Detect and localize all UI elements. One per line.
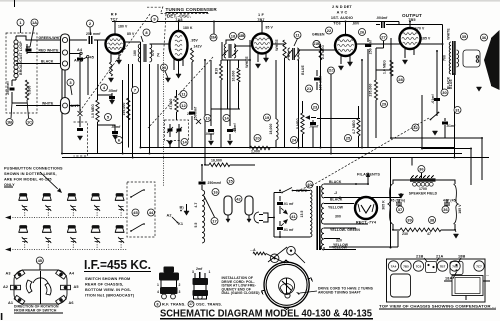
- svg-text:.60V: .60V: [352, 22, 360, 26]
- drum tabs: [283, 260, 289, 263]
- svg-text:1,000: 1,000: [251, 150, 260, 154]
- svg-text:TOP VIEW OF CHASSIS SHOWING CO: TOP VIEW OF CHASSIS SHOWING COMPENSATOR …: [379, 305, 496, 309]
- ground: [402, 60, 407, 64]
- antenna trim capacitor: [26, 44, 28, 54]
- dial drum: [264, 262, 309, 307]
- part ref 18B: [238, 33, 245, 40]
- wire: vertical x443 right: [442, 25, 444, 96]
- svg-text:BLACK: BLACK: [330, 198, 343, 202]
- svg-text:40: 40: [307, 182, 312, 187]
- svg-text:BLACK: BLACK: [329, 180, 342, 184]
- OSC transformer part drawing: [192, 267, 211, 299]
- part ref 2: [87, 20, 94, 27]
- part ref 16: [212, 189, 219, 196]
- page edge mark top-left: [14, 0, 16, 7]
- svg-text:DIAL (GANG CLOSED): DIAL (GANG CLOSED): [222, 291, 260, 295]
- chassis big part: [391, 274, 411, 297]
- wire: vertical x331: [330, 74, 332, 154]
- svg-text:6,800: 6,800: [28, 86, 32, 95]
- svg-text:21A: 21A: [436, 255, 444, 259]
- pushbutton switch: [42, 196, 51, 201]
- ground: [432, 131, 437, 135]
- svg-text:185 V: 185 V: [458, 204, 462, 214]
- triode grid resistor: [191, 48, 194, 62]
- capacitor: [277, 203, 283, 204]
- svg-text:10: 10: [162, 65, 167, 70]
- trimmer cap: [118, 237, 124, 243]
- svg-text:1: 1: [157, 283, 159, 287]
- wire: left vertical bus: [61, 40, 63, 154]
- svg-text:SPEAKER FIELD: SPEAKER FIELD: [409, 192, 438, 196]
- svg-text:18: 18: [231, 33, 236, 38]
- trimmer cap: [45, 237, 51, 243]
- tube socket 7A8: [450, 261, 460, 271]
- part ref 21B: [313, 41, 320, 48]
- ground: [247, 219, 251, 222]
- part ref 17: [188, 301, 194, 307]
- svg-text:27: 27: [381, 34, 386, 39]
- svg-text:670: 670: [151, 50, 155, 56]
- ground: [476, 87, 481, 91]
- part ref 1B: [6, 119, 13, 126]
- part ref 19: [264, 114, 271, 121]
- part ref 4: [101, 84, 108, 91]
- dial cord diagonal: [148, 57, 213, 128]
- svg-text:WHITE: WHITE: [275, 39, 279, 51]
- caps C41 .01mf x2: [279, 196, 281, 237]
- svg-text:YELLOW- GREEN: YELLOW- GREEN: [330, 228, 360, 232]
- part ref 21B: [313, 41, 320, 48]
- chassis top view box: [387, 259, 486, 302]
- junction dots: [140, 147, 142, 149]
- switch terminal A6: [56, 295, 67, 304]
- svg-text:GREEN: GREEN: [312, 33, 325, 37]
- tube V4 2nd det TC6: [335, 35, 356, 56]
- coil winding: [449, 42, 451, 74]
- capacitor: [227, 130, 233, 131]
- wire: vertical x150: [149, 64, 151, 154]
- filament CT ground: [339, 198, 341, 200]
- grid cap wire down: [79, 53, 81, 113]
- trimmer arrows on IF1: [222, 50, 238, 56]
- svg-text:44: 44: [149, 210, 154, 215]
- wire: vertical x140: [140, 42, 142, 148]
- svg-text:700: 700: [443, 55, 447, 61]
- svg-text:28: 28: [398, 77, 403, 82]
- ground: [116, 60, 121, 64]
- part ref 41: [290, 213, 297, 220]
- svg-text:2mf: 2mf: [196, 267, 203, 271]
- part ref 36: [481, 34, 488, 41]
- svg-text:A3: A3: [6, 272, 11, 276]
- svg-text:5.5: 5.5: [194, 222, 198, 227]
- capacitor: [314, 78, 320, 79]
- svg-text:7C6: 7C6: [416, 264, 422, 268]
- svg-text:TC6: TC6: [333, 22, 341, 26]
- coil winding: [321, 228, 324, 250]
- part ref 42: [235, 196, 242, 203]
- svg-text:17: 17: [189, 302, 193, 306]
- svg-text:1 F: 1 F: [258, 13, 264, 17]
- part ref 23: [312, 104, 319, 111]
- part ref 28: [397, 76, 404, 83]
- cathode wires below 7A8: [174, 59, 183, 74]
- trimmer caps inside: [169, 124, 171, 137]
- resistor 47000: [175, 96, 178, 112]
- resistor: [423, 228, 441, 232]
- part ref 11: [294, 32, 301, 39]
- capacitor: [109, 97, 115, 98]
- svg-text:SCHEMATIC DIAGRAM MODEL 40-130: SCHEMATIC DIAGRAM MODEL 40-130 & 40-135: [160, 308, 372, 320]
- part ref 7: [132, 87, 139, 94]
- svg-text:29: 29: [382, 101, 387, 106]
- part ref 20: [254, 135, 261, 142]
- part ref 38: [429, 217, 436, 224]
- pushbutton switch: [67, 196, 76, 201]
- resistors 230 / 47: [393, 229, 455, 231]
- svg-text:.5 MEG: .5 MEG: [296, 118, 300, 130]
- cathode wires TC6: [341, 55, 350, 64]
- svg-text:180 K: 180 K: [183, 26, 193, 30]
- part ref 36: [418, 166, 425, 173]
- dial cord spring: [253, 252, 266, 255]
- wire 7B7 plate to IF2: [272, 43, 285, 45]
- dashed enclosure model 40-135 aerial: [6, 33, 37, 113]
- svg-text:18B: 18B: [239, 34, 246, 38]
- switch terminal A3: [14, 270, 25, 279]
- part ref 9: [151, 16, 158, 23]
- wire: horiz y148 right: [422, 149, 471, 186]
- AC plug: [259, 213, 268, 222]
- svg-text:36: 36: [443, 207, 448, 212]
- svg-text:WHITE: WHITE: [447, 28, 451, 40]
- svg-text:13.5: 13.5: [300, 210, 304, 217]
- svg-text:14: 14: [224, 115, 229, 120]
- svg-text:250mmf: 250mmf: [208, 181, 222, 185]
- wire: vertical x391: [390, 38, 392, 138]
- part ref 15: [227, 178, 234, 185]
- svg-text:.01mf: .01mf: [309, 125, 319, 129]
- part ref 27: [380, 34, 387, 41]
- part ref 17: [211, 218, 218, 225]
- part ref 21: [306, 85, 313, 92]
- capacitor: [208, 130, 214, 131]
- wire tube plate to rail: [106, 22, 116, 41]
- svg-text:12: 12: [181, 103, 186, 108]
- transformer core: [317, 186, 320, 250]
- cap .01mf: [312, 120, 314, 122]
- coil winding: [224, 44, 226, 58]
- part ref 1A: [31, 19, 38, 26]
- resistor: [400, 228, 423, 232]
- svg-text:ARE FOR MODEL 40-135: ARE FOR MODEL 40-135: [4, 178, 52, 182]
- svg-text:RED WHITE: RED WHITE: [39, 49, 60, 53]
- part ref 21C: [328, 67, 335, 74]
- svg-text:26: 26: [360, 29, 365, 34]
- part ref 8: [155, 301, 161, 307]
- capacitor: [382, 21, 384, 28]
- svg-text:WHITE: WHITE: [42, 102, 54, 106]
- transformer T6 primary: [310, 190, 312, 237]
- svg-text:1C: 1C: [27, 119, 32, 124]
- svg-text:.05mf: .05mf: [108, 89, 118, 93]
- speaker field choke: [410, 178, 436, 181]
- svg-text:14: 14: [182, 139, 187, 144]
- page edge mark bottom-left: [1, 313, 3, 320]
- wire: top B+ rail: [112, 21, 399, 23]
- svg-text:300: 300: [335, 215, 341, 219]
- svg-text:16: 16: [213, 189, 218, 194]
- pushbutton switch: [67, 228, 76, 233]
- capacitor: [167, 129, 172, 130]
- capacitor: [365, 45, 371, 46]
- coil winding: [457, 50, 459, 67]
- capacitor: [199, 182, 206, 183]
- pushbutton switch: [91, 228, 100, 233]
- tube socket 7C7: [474, 261, 484, 271]
- switch body: [39, 264, 41, 270]
- part ref 35: [461, 33, 468, 40]
- part ref 14: [223, 115, 230, 122]
- ground: [77, 136, 82, 140]
- RF transformer part drawing: [157, 267, 181, 299]
- resistor 6800 ohm in aerial box: [25, 80, 28, 100]
- resistor 1.5 MEG: [96, 100, 99, 122]
- svg-text:.05mf: .05mf: [205, 132, 215, 136]
- svg-text:K1: K1: [178, 222, 183, 226]
- svg-text:SWITCH SHOWN FROM: SWITCH SHOWN FROM: [85, 277, 130, 281]
- svg-text:3: 3: [192, 270, 194, 274]
- rotor blades: [26, 280, 32, 293]
- dotted gang vertical: [163, 55, 165, 186]
- part ref 6: [116, 137, 123, 144]
- dash-dot mechanical link: [313, 118, 429, 185]
- wire from 1B: [11, 100, 29, 118]
- braces: [388, 184, 393, 224]
- svg-text:2 N D DET: 2 N D DET: [332, 5, 352, 9]
- wire RF plate to coil: [125, 41, 141, 43]
- part ref 10: [161, 64, 168, 71]
- svg-text:7B5: 7B5: [403, 264, 409, 268]
- svg-text:2: 2: [179, 283, 181, 287]
- resistor: [319, 46, 322, 60]
- svg-text:R.F. TRANS.: R.F. TRANS.: [162, 303, 186, 307]
- svg-text:30: 30: [442, 90, 447, 95]
- pushbutton switch: [115, 228, 124, 233]
- svg-text:36: 36: [482, 35, 487, 40]
- svg-text:18B: 18B: [458, 255, 466, 259]
- svg-text:SHOWN IN DOTTED LINES,: SHOWN IN DOTTED LINES,: [4, 172, 57, 176]
- svg-text:170 V: 170 V: [415, 27, 425, 31]
- svg-text:A5: A5: [74, 285, 79, 289]
- part ref 18A: [210, 34, 217, 41]
- svg-text:45 (12m): 45 (12m): [391, 199, 406, 203]
- svg-text:18,000: 18,000: [269, 124, 273, 135]
- idler pulleys: [270, 254, 279, 263]
- svg-text:8: 8: [157, 302, 159, 306]
- svg-text:45: 45: [38, 258, 43, 263]
- hub: [279, 278, 295, 294]
- ground: [398, 194, 403, 198]
- pushbutton switch: [115, 196, 124, 201]
- resistor: [220, 64, 223, 80]
- svg-text:A V C: A V C: [337, 11, 348, 15]
- part ref 11: [180, 91, 187, 98]
- svg-text:A4: A4: [69, 272, 75, 276]
- wire: BLACK lead: [16, 63, 61, 65]
- tube socket 7C6: [413, 261, 423, 271]
- dashed gang link lines: [80, 14, 150, 111]
- svg-text:45: 45: [133, 210, 138, 215]
- wire yellow lead bottom: [321, 247, 325, 250]
- ground: [108, 78, 113, 82]
- part ref 26: [359, 29, 366, 36]
- svg-text:155,000: 155,000: [122, 103, 126, 116]
- trim X: [78, 111, 83, 116]
- capacitor: [77, 58, 83, 59]
- capacitor: [310, 123, 316, 124]
- svg-text:31: 31: [455, 107, 460, 112]
- svg-text:TUNING CONDENSER: TUNING CONDENSER: [166, 7, 218, 12]
- svg-text:.01mf: .01mf: [446, 124, 456, 128]
- svg-text:47,000: 47,000: [169, 99, 173, 110]
- part ref 12: [180, 102, 187, 109]
- ground: [167, 141, 172, 145]
- svg-text:.01 mf: .01 mf: [283, 202, 294, 206]
- svg-text:185 V: 185 V: [421, 37, 431, 41]
- capacitor: [77, 129, 83, 130]
- switch terminal A5: [61, 285, 71, 289]
- resistor: [110, 62, 113, 76]
- wire: drop x412 to field: [411, 158, 413, 166]
- part ref 45: [132, 209, 139, 216]
- svg-text:21: 21: [307, 86, 312, 91]
- line switch S3: [282, 188, 292, 193]
- wire: bus drop x128: [127, 64, 129, 148]
- antenna terminal ANT: [61, 98, 70, 115]
- terminal strip TB: [61, 34, 70, 70]
- padder tubes 42: [224, 196, 232, 215]
- svg-text:A2: A2: [3, 285, 8, 289]
- trimmer cap: [94, 205, 100, 211]
- part ref 25: [345, 135, 352, 142]
- svg-text:4.7: 4.7: [194, 202, 198, 207]
- tube V5 output 7B5: [400, 28, 421, 49]
- wire: vertical x454 long: [454, 74, 456, 158]
- svg-text:15: 15: [228, 178, 233, 183]
- part ref 5: [105, 114, 112, 121]
- coil winding: [276, 119, 278, 140]
- svg-text:36: 36: [419, 166, 424, 171]
- pushbutton switch: [19, 196, 28, 201]
- pushbutton switch: [42, 228, 51, 233]
- dashed box band switch: [127, 182, 155, 237]
- svg-text:WHITE: WHITE: [245, 56, 249, 68]
- svg-text:1B: 1B: [7, 119, 12, 124]
- resistor: [374, 80, 377, 100]
- wire: vertical x298: [298, 60, 300, 148]
- svg-text:.05mf: .05mf: [111, 125, 121, 129]
- svg-text:21B: 21B: [416, 255, 424, 259]
- compensator 18: [450, 262, 463, 275]
- svg-text:PUSHBUTTON CONNECTIONS: PUSHBUTTON CONNECTIONS: [4, 167, 63, 171]
- svg-text:BROADCAST LOOP: BROADCAST LOOP: [19, 41, 23, 75]
- svg-text:B): B): [180, 206, 185, 210]
- svg-text:235,000: 235,000: [369, 84, 373, 97]
- svg-text:37: 37: [398, 207, 403, 212]
- part ref 24: [291, 137, 298, 144]
- wire coil to 7A8 grid: [150, 43, 171, 45]
- dotted bus row1: [10, 217, 127, 219]
- svg-text:4mf (45): 4mf (45): [443, 199, 457, 203]
- part ref 44: [148, 209, 155, 216]
- svg-text:I.F.=455 KC.: I.F.=455 KC.: [84, 257, 151, 272]
- capacitor: [176, 129, 181, 130]
- svg-text:22: 22: [327, 28, 332, 33]
- part ref 14: [181, 139, 188, 146]
- cathode resistor + ground below RF tube: [111, 53, 119, 62]
- resistor: [390, 60, 393, 76]
- primary wires: [268, 193, 304, 238]
- svg-text:RECT.-7Y4: RECT.-7Y4: [356, 221, 377, 225]
- coil winding: [297, 48, 299, 60]
- pushbutton switch: [19, 228, 28, 233]
- svg-text:1: 1: [209, 270, 211, 274]
- wire: RED WHITE lead: [27, 51, 61, 54]
- svg-text:230: 230: [402, 232, 408, 236]
- trimmer cap: [45, 205, 51, 211]
- svg-text:17: 17: [212, 218, 217, 223]
- svg-text:74: 74: [157, 53, 161, 57]
- capacitor: [89, 36, 92, 44]
- wire: vertical x422: [421, 95, 423, 149]
- leader lines from 1 and 1A: [21, 26, 35, 47]
- capacitor: [9, 88, 14, 89]
- tube socket 7B7: [437, 261, 447, 271]
- part ref 45: [36, 257, 43, 264]
- svg-text:BLUE: BLUE: [301, 65, 305, 75]
- svg-text:142V: 142V: [194, 45, 203, 49]
- wire: vertical x320: [320, 44, 322, 148]
- .01mf cap 2: [442, 122, 448, 123]
- ground: [227, 141, 232, 145]
- field wires: [393, 180, 455, 230]
- wire: vertical x250: [249, 40, 251, 148]
- svg-text:250 mmf: 250 mmf: [86, 32, 101, 36]
- svg-text:.01 mf: .01 mf: [283, 228, 294, 232]
- wire: bottom bus 2: [62, 153, 462, 155]
- ground: [184, 211, 189, 215]
- svg-text:ONLY: ONLY: [4, 183, 15, 187]
- svg-text:24: 24: [292, 137, 297, 142]
- svg-text:18A: 18A: [445, 277, 453, 281]
- svg-text:100 mmf: 100 mmf: [319, 75, 323, 90]
- wire: vertical x362: [361, 60, 363, 148]
- svg-text:47: 47: [427, 232, 431, 236]
- padder trimmer dashed box: [165, 120, 189, 141]
- svg-text:305 K: 305 K: [382, 200, 386, 210]
- svg-text:18A: 18A: [211, 36, 218, 40]
- volume pot .5 MEG: [301, 113, 304, 134]
- svg-text:3: 3: [179, 290, 181, 294]
- wire: bottom bus 1: [140, 147, 455, 149]
- tube socket 7B5: [401, 261, 411, 271]
- svg-text:A6: A6: [69, 301, 74, 305]
- resistor: [357, 118, 360, 136]
- svg-text:320: 320: [336, 239, 342, 243]
- ground: [112, 135, 117, 139]
- secondary windings: [322, 184, 324, 198]
